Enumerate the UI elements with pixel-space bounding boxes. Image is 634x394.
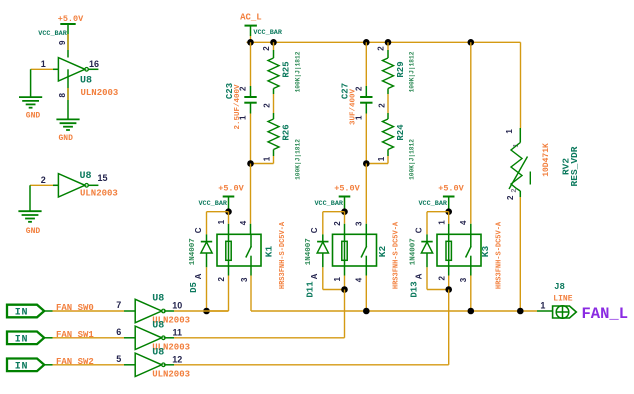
svg-text:5: 5	[116, 354, 121, 364]
wire R26 bottom	[273, 150, 275, 157]
svg-text:4: 4	[354, 277, 363, 282]
varistor RV2 pin2 stub	[519, 191, 521, 197]
svg-text:15: 15	[97, 173, 107, 183]
svg-text:2: 2	[376, 46, 385, 51]
ground GND (left of U8A)	[19, 96, 42, 98]
power +5.0V (K1)	[223, 196, 235, 198]
junction VCC K3	[445, 208, 452, 215]
power +5.0V (top-left)	[60, 23, 75, 25]
junction VCC K1	[225, 208, 232, 215]
wire C23 top	[250, 42, 252, 86]
wire C27 top	[365, 42, 367, 86]
svg-text:GND: GND	[26, 112, 41, 121]
svg-text:7: 7	[116, 300, 121, 310]
svg-text:2: 2	[239, 86, 248, 91]
pin 15 wire	[88, 184, 99, 186]
svg-text:4: 4	[459, 220, 468, 225]
svg-text:U8: U8	[152, 347, 164, 358]
svg-text:U8: U8	[80, 76, 92, 87]
svg-text:FAN_SW2: FAN_SW2	[56, 357, 94, 367]
relay K3	[437, 234, 481, 266]
svg-text:1: 1	[333, 277, 342, 282]
junction bus at C23	[247, 39, 254, 46]
wire RV2 down to FAN_L line	[519, 197, 521, 311]
svg-text:A: A	[194, 273, 203, 279]
op-amp buffer U8A ULN2003	[58, 58, 85, 81]
svg-text:+5.0V: +5.0V	[218, 184, 244, 194]
port IN (FAN_SW2)	[7, 359, 44, 372]
svg-text:C: C	[310, 227, 319, 233]
svg-text:R29: R29	[396, 61, 406, 77]
junction D11/K2 coil	[341, 286, 348, 293]
svg-text:1: 1	[540, 301, 545, 311]
wire bus to K3 pin4	[470, 42, 472, 224]
junction D13/K3 coil	[445, 286, 452, 293]
svg-text:2: 2	[41, 175, 46, 185]
svg-text:3: 3	[354, 221, 363, 226]
diode D5 1N4007	[206, 234, 208, 241]
junction C23/R26	[247, 160, 254, 167]
svg-text:1: 1	[239, 115, 248, 120]
svg-text:2: 2	[506, 195, 515, 200]
wire K1 pin2 down	[228, 266, 230, 276]
svg-text:1: 1	[377, 156, 386, 161]
svg-text:6: 6	[116, 327, 121, 337]
svg-text:U8: U8	[152, 294, 164, 305]
op-amp buffer U8B ULN2003	[58, 174, 85, 197]
wire bottom joining C27-R24	[366, 163, 388, 165]
svg-text:D11: D11	[305, 281, 315, 298]
wire K2 coil to FAN_SW1 row	[344, 290, 346, 338]
wire down to K2 pin3	[365, 164, 367, 224]
diode D13 1N4007	[426, 234, 428, 241]
svg-text:+5.0V: +5.0V	[334, 184, 360, 194]
svg-text:3: 3	[240, 277, 249, 282]
svg-text:R24: R24	[396, 124, 406, 141]
wire K3 pin2 down	[448, 266, 450, 276]
junction bus at R25	[270, 39, 277, 46]
svg-text:10D471K: 10D471K	[542, 143, 551, 177]
wire bus right side down to RV2	[520, 42, 522, 128]
svg-text:1N4007: 1N4007	[305, 238, 313, 265]
wire R25 top stub	[273, 42, 275, 50]
wire FAN_SW0 output to K1	[174, 310, 229, 312]
varistor RV2 pin1 stub	[519, 128, 521, 143]
resistor R29	[383, 58, 394, 89]
svg-text:100K|J|1812: 100K|J|1812	[295, 51, 302, 92]
ground GND (below pin 8)	[56, 118, 79, 120]
port IN (FAN_SW0)	[7, 305, 44, 318]
svg-text:K3: K3	[480, 246, 491, 258]
svg-text:VCC_BAR: VCC_BAR	[314, 200, 343, 208]
svg-text:100K|J|1812: 100K|J|1812	[409, 51, 416, 92]
op-amp buffer U8 row2 ULN2003	[135, 326, 162, 349]
wire FAN_SW2	[44, 364, 52, 366]
wire K3 coil to FAN_SW2 row	[448, 290, 450, 365]
capacitor C23	[244, 96, 256, 98]
svg-text:C: C	[194, 227, 203, 233]
svg-text:VCC_BAR: VCC_BAR	[418, 200, 447, 208]
varistor RV2 body	[511, 143, 522, 192]
wire FAN_L line	[251, 310, 537, 312]
junction VCC K2	[341, 208, 348, 215]
wire R24 bottom	[387, 150, 389, 157]
svg-text:K1: K1	[264, 246, 275, 258]
svg-text:IN: IN	[15, 334, 29, 345]
svg-text:2: 2	[333, 221, 342, 226]
svg-text:LINE: LINE	[553, 294, 572, 303]
svg-text:1: 1	[41, 59, 46, 69]
svg-text:ULN2003: ULN2003	[152, 369, 190, 379]
junction C27/R24	[363, 160, 370, 167]
wire C27 bottom	[365, 114, 367, 164]
pin 16 wire	[88, 68, 99, 70]
svg-text:8: 8	[58, 93, 67, 98]
svg-text:A: A	[310, 273, 319, 279]
junction bus at R29	[385, 39, 392, 46]
wire D13 anode down	[426, 267, 428, 289]
svg-text:100K|J|1812: 100K|J|1812	[409, 139, 416, 180]
wire C23 bottom	[250, 114, 252, 164]
svg-text:10: 10	[172, 301, 182, 311]
wire K1 pin3 down to FAN_L line	[250, 266, 252, 276]
wire D13 cathode top	[427, 211, 449, 213]
power +5.0V (K2)	[339, 196, 351, 198]
svg-text:2: 2	[377, 103, 386, 108]
wire down to K1 pin4	[250, 164, 252, 224]
wire K2 pin4 down to FAN_L line	[365, 266, 367, 276]
junction bus at K3 pin4 column	[468, 39, 475, 46]
svg-text:HRS3FNH-S-DC5V-A: HRS3FNH-S-DC5V-A	[279, 221, 287, 289]
wire to ground 2	[29, 185, 31, 211]
junction D5/FAN_SW0	[203, 308, 210, 315]
svg-text:2: 2	[217, 277, 226, 282]
svg-text:C: C	[414, 227, 423, 233]
wire FAN_SW0	[44, 310, 52, 312]
wire R29 top stub	[387, 42, 389, 50]
svg-text:11: 11	[173, 328, 183, 338]
svg-text:U8: U8	[79, 171, 91, 182]
resistor R25	[268, 58, 279, 89]
svg-text:1: 1	[437, 220, 446, 225]
port IN (FAN_SW1)	[7, 332, 44, 345]
junction K3 pin3 on FAN_L	[468, 308, 475, 315]
capacitor C27	[360, 96, 372, 98]
wire D11 anode down	[322, 267, 324, 289]
svg-text:3: 3	[459, 277, 468, 282]
svg-text:VCC_BAR: VCC_BAR	[253, 29, 282, 37]
op-amp buffer U8 row3 ULN2003	[135, 353, 162, 376]
svg-text:16: 16	[89, 59, 99, 69]
diode D11 1N4007	[322, 234, 324, 241]
svg-text:FAN_L: FAN_L	[582, 305, 629, 323]
svg-text:A: A	[414, 273, 423, 279]
resistor R24	[383, 119, 394, 150]
junction RV2 on FAN_L	[517, 308, 524, 315]
svg-text:1: 1	[262, 156, 271, 161]
relay K1	[217, 234, 261, 266]
svg-text:HRS3FNH-S-DC5V-A: HRS3FNH-S-DC5V-A	[393, 221, 401, 289]
svg-text:2: 2	[354, 86, 363, 91]
wire pin 9 vertical	[67, 24, 69, 58]
wire K2 pin1 down	[344, 266, 346, 276]
svg-text:GND: GND	[26, 227, 41, 236]
wire R29-R24	[387, 89, 389, 95]
wire FAN_SW1 output	[164, 337, 174, 339]
svg-text:D5: D5	[189, 282, 199, 293]
pin 1 wire	[31, 68, 59, 70]
svg-text:AC_L: AC_L	[240, 13, 262, 23]
pin 2 wire	[30, 184, 58, 186]
svg-text:IN: IN	[15, 361, 29, 372]
svg-text:2: 2	[263, 103, 272, 108]
svg-text:12: 12	[172, 355, 182, 365]
relay K2	[333, 234, 377, 266]
svg-text:100K|J|1812: 100K|J|1812	[295, 139, 302, 180]
wire FAN_SW0 output	[164, 310, 174, 312]
wire to ground	[30, 69, 32, 97]
svg-text:J8: J8	[554, 282, 565, 292]
svg-text:2: 2	[262, 46, 271, 51]
wire K1 pin1	[228, 212, 230, 224]
svg-text:4: 4	[239, 220, 248, 225]
svg-text:9: 9	[58, 40, 67, 45]
svg-text:2: 2	[437, 276, 446, 281]
svg-text:1: 1	[354, 115, 363, 120]
power +5.0V (K3)	[443, 196, 455, 198]
junction bus at C27	[363, 39, 370, 46]
svg-text:ULN2003: ULN2003	[80, 188, 118, 198]
junction K2 pin4 on FAN_L	[363, 308, 370, 315]
svg-text:+5.0V: +5.0V	[438, 184, 464, 194]
svg-text:K2: K2	[377, 246, 388, 258]
svg-text:D13: D13	[410, 281, 420, 297]
svg-text:1N4007: 1N4007	[189, 238, 197, 265]
svg-text:VCC_BAR: VCC_BAR	[198, 200, 227, 208]
wire K2 pin2	[344, 212, 346, 224]
wire VCC_BAR bus horizontal	[247, 41, 521, 43]
wire FAN_SW2 output	[164, 364, 174, 366]
svg-text:1: 1	[217, 219, 226, 224]
wire D5 anode down	[206, 267, 208, 311]
resistor R26	[268, 119, 279, 150]
wire FAN_SW1	[44, 337, 52, 339]
wire FAN_SW1 output to K2	[174, 337, 345, 339]
svg-text:VCC_BAR: VCC_BAR	[38, 30, 67, 38]
wire D5 cathode top	[207, 211, 229, 213]
svg-text:RES_VDR: RES_VDR	[569, 146, 580, 186]
svg-text:+5.0V: +5.0V	[58, 14, 84, 24]
svg-text:U8: U8	[152, 320, 164, 331]
wire K3 pin3 down to FAN_L line	[470, 266, 472, 276]
svg-text:R26: R26	[281, 124, 291, 140]
svg-text:R25: R25	[281, 61, 291, 77]
svg-text:FAN_SW1: FAN_SW1	[56, 330, 94, 340]
svg-text:IN: IN	[15, 308, 29, 319]
svg-text:GND: GND	[58, 134, 73, 143]
wire R25-R26	[273, 89, 275, 95]
wire FAN_SW2 output to K3	[174, 364, 449, 366]
svg-text:2: 2	[511, 188, 518, 192]
connector J8	[553, 306, 577, 318]
op-amp buffer U8 row1 ULN2003	[135, 299, 162, 322]
svg-text:HRS3FNH-S-DC5V-A: HRS3FNH-S-DC5V-A	[495, 221, 503, 289]
wire K3 pin1	[448, 212, 450, 224]
wire bottom joining C23-R26	[251, 163, 274, 165]
svg-text:1N4007: 1N4007	[409, 238, 417, 265]
svg-text:ULN2003: ULN2003	[81, 88, 119, 98]
ground GND (below U8B)	[18, 210, 41, 212]
wire pin 8 vertical	[67, 69, 69, 119]
svg-text:FAN_SW0: FAN_SW0	[56, 303, 94, 313]
svg-text:1: 1	[505, 129, 514, 134]
wire D11 cathode top	[323, 211, 345, 213]
